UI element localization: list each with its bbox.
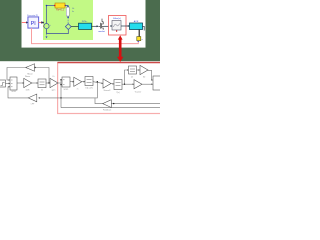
wire lpf input (39, 97, 61, 99)
arrow PI out (41, 21, 44, 24)
port mark left of source (43, 26, 44, 27)
red wire PI out (39, 22, 43, 24)
source block0 (0, 80, 6, 87)
right edge block blk6 (153, 76, 161, 90)
wire I1 to scope block (71, 26, 78, 28)
tfb2 tip wire (95, 98, 103, 103)
thick red double arrow (117, 35, 123, 62)
wire top-right (65, 6, 68, 8)
svg-text:SOM: SOM (11, 91, 16, 93)
riser second row (125, 70, 129, 84)
node dot top-left (46, 5, 48, 7)
arrow into mosfet (97, 25, 99, 27)
block0 icon (1, 83, 5, 86)
background (0, 0, 160, 120)
wire tri5b out down (148, 70, 153, 80)
svg-text:Vbase/2: Vbase/2 (104, 90, 111, 92)
wire top-left (47, 5, 56, 7)
junction dots (34, 67, 125, 105)
yellow display block (137, 37, 141, 41)
bottom wire (47, 29, 69, 34)
resistor port left (54, 5, 55, 6)
svg-text:Lr: Lr (72, 10, 74, 13)
mosfet symbol (99, 19, 104, 30)
svg-text:gain: gain (52, 90, 56, 92)
blk1 icon (40, 82, 45, 85)
svg-text:ZVS r: ZVS r (82, 20, 88, 23)
white picture inset (22, 0, 146, 48)
svg-text:PI: PI (31, 21, 36, 27)
wire down to yellow meas block (138, 30, 140, 37)
node dot mid-right (67, 16, 69, 18)
svg-text:T(s): T(s) (116, 92, 120, 94)
wire mosfet to filter box (104, 25, 109, 27)
measurement dashed signal V1 (46, 29, 48, 37)
svg-text:ACR: ACR (134, 20, 139, 23)
source V1 circle (44, 24, 49, 29)
green circuit panel (43, 0, 93, 40)
sum block blk2 (62, 77, 70, 87)
arrow into PI (26, 21, 28, 23)
svg-text:Rs=0.1: Rs=0.1 (56, 9, 64, 12)
blk2 icon (63, 80, 65, 85)
blk4 icon (116, 83, 121, 86)
wire block0 out (6, 82, 10, 84)
strong red top edge (58, 62, 160, 64)
resistor Rs (55, 3, 65, 8)
wire blk4 out (122, 83, 134, 85)
wire sum1 out (17, 82, 24, 84)
cyan block 2 (130, 23, 143, 30)
PI controller block (28, 17, 39, 29)
long bus wire (61, 107, 160, 109)
tf block blk1 (38, 79, 46, 88)
cyan block 1 (79, 23, 92, 29)
tfb2 right wire (112, 103, 161, 105)
ground arrow mark (46, 36, 48, 38)
wire left branch vertical (46, 6, 48, 24)
filter block (112, 21, 121, 31)
gain tri5 (134, 80, 142, 89)
wire tri5 out (142, 83, 153, 85)
arrow into filter (111, 25, 113, 27)
tfb2 triangle (left pointing) (103, 100, 112, 108)
blk5a icon (130, 69, 135, 72)
feedback wire top-left (7, 68, 25, 81)
tf block blk3 (85, 77, 93, 86)
dark green slide background (0, 0, 160, 61)
svg-text:Vcarrier: Vcarrier (135, 90, 142, 93)
block blk4 (114, 80, 122, 90)
svg-text:Filter(s): Filter(s) (113, 17, 121, 20)
second row block blk5a (129, 66, 137, 74)
blk3 icon (87, 80, 92, 83)
svg-text:1/Vb: 1/Vb (26, 90, 30, 92)
input port on green panel edge (42, 22, 44, 24)
wire blk1 out (46, 82, 50, 84)
controlled source diamond (65, 24, 71, 30)
red wire into PI (22, 22, 27, 24)
svg-text:SOF1: SOF1 (64, 89, 69, 91)
wire cyan2 out down (143, 26, 145, 30)
sum1 icon (11, 80, 13, 87)
svg-text:Pbase: Pbase (25, 76, 30, 78)
filter icon squiggle (114, 24, 120, 28)
wire tri3 out (82, 81, 85, 83)
filter red port dot (116, 30, 117, 32)
svg-text:Kd: Kd (143, 77, 145, 79)
red callout box around filter (109, 16, 127, 36)
wire blk2 out (70, 81, 74, 83)
lpf triangle (left pointing) (28, 94, 37, 102)
svg-text:1/(Ls+R): 1/(Ls+R) (85, 87, 93, 89)
wire cyan1 out (92, 25, 99, 27)
gain tri3 (74, 77, 82, 86)
wire main junction riser (61, 82, 97, 98)
node dot top-right (67, 6, 69, 8)
svg-text:1/z: 1/z (131, 77, 134, 79)
svg-text:Cr: Cr (72, 7, 75, 10)
wire tfb1 input (35, 68, 49, 84)
wire tri4 out (111, 83, 114, 85)
gain tri4 (103, 79, 111, 88)
feedback gain triangle tfb1 (26, 64, 35, 71)
small arrow up at end (137, 40, 139, 42)
second row gain tri5b (140, 65, 148, 74)
wire filter out (121, 25, 130, 27)
inductor Lr (white block) (66, 7, 69, 16)
wire tri2 out (58, 80, 61, 85)
pink callout wire from PI down (32, 28, 139, 44)
wire below Lr (67, 16, 69, 23)
svg-text:Feedback: Feedback (103, 110, 111, 112)
big pink callout rectangle (clipped right) (58, 63, 168, 114)
input arrowheads (9, 67, 153, 105)
gain tri2 (50, 78, 58, 87)
arrow into cyan2 (128, 25, 130, 27)
wire lpf output to sum (8, 87, 28, 98)
wire tri1 out (32, 82, 38, 84)
riser to bus (60, 85, 62, 108)
gain tri1 (24, 78, 32, 87)
wire blk5a out (137, 69, 140, 71)
resistor port right (65, 5, 66, 6)
sum block sum1 (10, 77, 17, 90)
svg-text:mosfet: mosfet (98, 30, 105, 33)
wire blk3 out (93, 82, 103, 84)
